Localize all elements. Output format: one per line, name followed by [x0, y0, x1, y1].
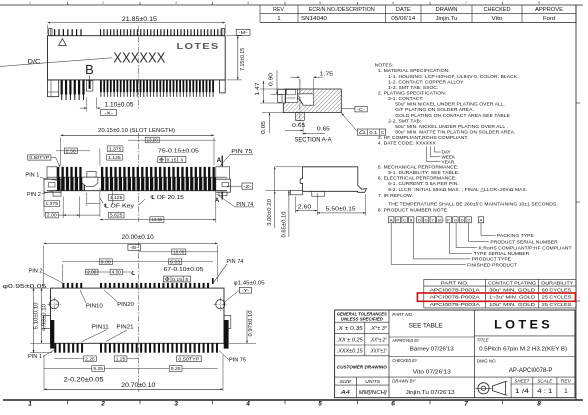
svg-text:.XXX°±1°: .XXX°±1°: [370, 349, 388, 355]
svg-text:21.85±0.15: 21.85±0.15: [122, 17, 158, 23]
svg-text:25 CYCLES.: 25 CYCLES.: [542, 295, 573, 301]
svg-text:7.15±0.15: 7.15±0.15: [240, 48, 246, 71]
svg-text:A: A: [217, 158, 222, 164]
svg-text:5-1. DURABILITY: SEE TABLE.: 5-1. DURABILITY: SEE TABLE.: [388, 170, 459, 176]
svg-text:4.00: 4.00: [112, 270, 122, 275]
svg-text:4. DATE CODE: XXXXXX: 4. DATE CODE: XXXXXX: [378, 141, 437, 147]
svg-text:APPROVE: APPROVE: [535, 7, 563, 13]
svg-text:-Z-: -Z-: [243, 184, 252, 189]
svg-text:10u" MIN. GOLD: 10u" MIN. GOLD: [489, 302, 536, 308]
svg-text:.X°± 3°: .X°± 3°: [370, 326, 388, 332]
svg-text:.XX ± 0.25: .XX ± 0.25: [337, 337, 364, 343]
svg-text:5. MECHANICAL PERFORMANCE:: 5. MECHANICAL PERFORMANCE:: [378, 164, 459, 170]
svg-text:4.93±0.10: 4.93±0.10: [41, 304, 47, 331]
svg-text:1.375: 1.375: [45, 201, 58, 206]
svg-text:2. PLATING SPECIFICATION:: 2. PLATING SPECIFICATION:: [378, 91, 446, 97]
svg-text:DWG NO.: DWG NO.: [477, 359, 497, 365]
svg-text:0.15: 0.15: [172, 277, 183, 282]
svg-text:4: 4: [245, 401, 250, 408]
svg-text:DURABILITY: DURABILITY: [541, 280, 574, 286]
svg-text:4 : 1: 4 : 1: [537, 389, 553, 395]
svg-text:10.00: 10.00: [173, 249, 185, 254]
svg-text:Ford: Ford: [543, 16, 555, 22]
svg-text:2.60: 2.60: [298, 204, 312, 210]
svg-text:0.65: 0.65: [292, 123, 305, 129]
svg-text:PART NO.: PART NO.: [441, 280, 469, 286]
svg-text:SIZE: SIZE: [339, 379, 352, 384]
svg-text:6: 6: [391, 401, 395, 408]
svg-text:℄ OF 20.15: ℄ OF 20.15: [150, 195, 184, 201]
svg-text:1.75: 1.75: [320, 71, 334, 77]
svg-text:5.10±0.10: 5.10±0.10: [33, 302, 39, 329]
svg-text:0.97±0.10: 0.97±0.10: [248, 310, 254, 336]
svg-text:PIN21: PIN21: [117, 325, 134, 331]
svg-text:Barney 07/26'13: Barney 07/26'13: [410, 347, 454, 353]
svg-text:XXXXXX: XXXXXX: [113, 51, 165, 67]
svg-text:SCALE: SCALE: [537, 378, 553, 384]
svg-text:9.03: 9.03: [170, 259, 181, 264]
svg-text:CHECKED: CHECKED: [484, 7, 511, 13]
svg-text:.XX°± 2°: .XX°± 2°: [370, 337, 388, 343]
svg-text:05/06'14: 05/06'14: [391, 16, 416, 22]
svg-text:-Y-: -Y-: [241, 288, 250, 293]
svg-text:-X-: -X-: [104, 110, 114, 115]
svg-text:0.5Pitch 67pin M.2 H3.2(KEY B): 0.5Pitch 67pin M.2 H3.2(KEY B): [479, 346, 567, 352]
svg-text:2-2. SMT TAB:: 2-2. SMT TAB:: [388, 118, 421, 124]
svg-text:DRAWN: DRAWN: [436, 7, 458, 13]
svg-text:8: 8: [537, 401, 541, 408]
svg-text:5: 5: [318, 401, 322, 408]
svg-text:1.125: 1.125: [108, 155, 121, 160]
svg-text:8: 8: [538, 1, 540, 5]
svg-text:2: 2: [101, 1, 104, 5]
svg-text:℄: ℄: [130, 271, 135, 277]
svg-text:9.00: 9.00: [101, 259, 112, 264]
svg-text:75-0.15±0.05: 75-0.15±0.05: [158, 149, 199, 155]
svg-text:1 /4: 1 /4: [515, 389, 530, 395]
svg-text:3: 3: [175, 1, 177, 5]
svg-text:NOTES:: NOTES:: [375, 63, 394, 69]
svg-text:PART NO.: PART NO.: [392, 312, 413, 318]
svg-text:50u" MIN. NICKEL UNDER PLATING: 50u" MIN. NICKEL UNDER PLATING OVER ALL …: [395, 124, 508, 130]
svg-text:7. IR REFLOW:: 7. IR REFLOW:: [378, 193, 413, 199]
svg-text:DATE: DATE: [396, 7, 411, 13]
svg-text:ECR/N NO./DESCRIPTION: ECR/N NO./DESCRIPTION: [309, 7, 375, 13]
svg-text:1: 1: [29, 1, 31, 5]
svg-text:0.65±0.10: 0.65±0.10: [281, 211, 287, 237]
svg-text:1-3. SMT TAB: SSOC.: 1-3. SMT TAB: SSOC.: [388, 85, 438, 91]
svg-text:2.00: 2.00: [87, 270, 97, 275]
svg-text:B: B: [85, 62, 94, 77]
svg-text:3.00±0.20: 3.00±0.20: [267, 199, 273, 226]
svg-text:PIN10: PIN10: [86, 304, 103, 310]
svg-text:2-1. CONTACT:: 2-1. CONTACT:: [388, 96, 423, 102]
svg-text:3. HF COMPLIANT,ROHS COMPLIAN: 3. HF COMPLIANT,ROHS COMPLIANT.: [378, 135, 469, 141]
svg-text:PIN20: PIN20: [117, 302, 134, 308]
svg-text:0.50TYP: 0.50TYP: [178, 356, 199, 361]
svg-text:0.05: 0.05: [261, 121, 267, 134]
svg-text:2-0.20±0.05: 2-0.20±0.05: [64, 377, 105, 383]
svg-text:5.625: 5.625: [110, 213, 123, 218]
svg-text:CONTACT PLATING: CONTACT PLATING: [488, 280, 536, 286]
svg-text:LOTES: LOTES: [177, 41, 220, 51]
svg-text:A: A: [480, 217, 483, 222]
svg-text:6: 6: [392, 1, 394, 5]
svg-text:2.00: 2.00: [47, 213, 58, 218]
svg-text:-M-: -M-: [239, 30, 249, 35]
svg-text:TYPE SERIAL NUMBER: TYPE SERIAL NUMBER: [474, 251, 530, 257]
svg-text:A: A: [390, 217, 393, 222]
svg-text:PIN 2: PIN 2: [27, 192, 41, 198]
svg-text:0.90: 0.90: [269, 73, 275, 86]
svg-text:2.25: 2.25: [85, 356, 95, 361]
svg-text:-B-: -B-: [130, 245, 139, 250]
svg-text:CUSTOMER DRAWING: CUSTOMER DRAWING: [337, 365, 387, 370]
svg-text:PRODUCT SERIAL NUMBER: PRODUCT SERIAL NUMBER: [490, 239, 558, 245]
svg-text:5: 5: [319, 1, 321, 5]
svg-text:0.15: 0.15: [167, 158, 178, 163]
svg-text:YEAR: YEAR: [442, 159, 455, 164]
svg-text:1.25: 1.25: [116, 356, 126, 361]
svg-text:AP-APCI0078-P: AP-APCI0078-P: [509, 367, 553, 374]
svg-text:G/F PLATING ON SOLDER AREA.: G/F PLATING ON SOLDER AREA.: [395, 107, 474, 113]
svg-text:C: C: [403, 217, 406, 222]
svg-text:80u" MIN. MATTE TIN PLATING ON: 80u" MIN. MATTE TIN PLATING ON SOLDER AR…: [395, 130, 515, 136]
svg-text:SEE TABLE: SEE TABLE: [409, 323, 444, 330]
svg-text:0.65: 0.65: [317, 127, 330, 133]
svg-text:0.50TYP: 0.50TYP: [29, 155, 49, 160]
svg-text:1.125: 1.125: [110, 195, 123, 200]
svg-text:P: P: [396, 217, 399, 222]
svg-text:6-1. CURRENT: 0.5A PER PIN.: 6-1. CURRENT: 0.5A PER PIN.: [388, 181, 459, 187]
svg-text:7: 7: [464, 401, 468, 408]
svg-text:Vito 07/26'13: Vito 07/26'13: [413, 370, 451, 376]
svg-text:UNLESS SPECIFIED: UNLESS SPECIFIED: [341, 317, 384, 322]
svg-text:Jinjin.Tu: Jinjin.Tu: [436, 16, 458, 22]
svg-text:Jinjin.Tu 07/26'13: Jinjin.Tu 07/26'13: [406, 390, 455, 396]
svg-text:.X ± 0.35: .X ± 0.35: [337, 326, 364, 332]
svg-text:PIN 1: PIN 1: [25, 172, 39, 178]
svg-text:UNITS: UNITS: [365, 379, 381, 384]
svg-text:X: X: [180, 158, 183, 163]
svg-text:1. MATERIAL SPECIFICATION:: 1. MATERIAL SPECIFICATION:: [378, 68, 450, 74]
svg-text:20.70±0.10: 20.70±0.10: [121, 382, 155, 389]
svg-text:APCI0078-P003A: APCI0078-P003A: [430, 302, 481, 308]
svg-text:DRAWN BY: DRAWN BY: [392, 378, 416, 384]
svg-text:I: I: [410, 217, 413, 222]
svg-text:APCI0078-P002A: APCI0078-P002A: [430, 295, 481, 301]
svg-text:φ1.45±0.05: φ1.45±0.05: [234, 280, 265, 286]
svg-text:6. ELECTRICAL PERFORMANCE:: 6. ELECTRICAL PERFORMANCE:: [378, 176, 457, 182]
svg-text:℄ OF Key: ℄ OF Key: [103, 203, 135, 209]
svg-text:THE TEMPERATURE SHALL BE 260±5: THE TEMPERATURE SHALL BE 260±5'C MAINTAI…: [388, 202, 558, 208]
svg-text:0.1: 0.1: [369, 130, 378, 135]
svg-text:PIN 74: PIN 74: [226, 259, 243, 265]
svg-text:B: B: [185, 277, 188, 282]
svg-text:13.50: 13.50: [147, 138, 159, 143]
svg-text:1-2. CONTACT: COPPER ALLOY.: 1-2. CONTACT: COPPER ALLOY.: [388, 79, 464, 85]
svg-text:CHECKED BY: CHECKED BY: [392, 358, 418, 364]
svg-text:20.15±0.10 (SLOT LENGTH): 20.15±0.10 (SLOT LENGTH): [98, 128, 175, 134]
svg-text:’: ’: [579, 297, 580, 303]
svg-text:PIN 75: PIN 75: [229, 358, 246, 364]
svg-text:TITLE: TITLE: [477, 338, 490, 344]
svg-text:PACKING TYPE: PACKING TYPE: [497, 233, 535, 239]
svg-text:20.00±0.10: 20.00±0.10: [122, 235, 155, 241]
svg-text:PRODUCT TYPE: PRODUCT TYPE: [472, 257, 512, 263]
svg-text:8. PRODUCT NUMBER NOTE: 8. PRODUCT NUMBER NOTE: [378, 207, 448, 213]
svg-text:9.25: 9.25: [93, 366, 103, 371]
svg-text:1: 1: [277, 16, 280, 22]
svg-text:PIN 1: PIN 1: [28, 354, 42, 360]
svg-text:APPROVED BY: APPROVED BY: [392, 338, 420, 344]
svg-text:REV: REV: [561, 378, 572, 384]
svg-text:SHEET: SHEET: [514, 378, 530, 384]
svg-text:MM[INCH]: MM[INCH]: [359, 390, 388, 396]
svg-text:K:RoHS COMPLIANT/P:HF COMPLIAN: K:RoHS COMPLIANT/P:HF COMPLIANT: [479, 245, 572, 251]
svg-text:6-2. LLCR: INITIAL 55mΩ MAX. ;: 6-2. LLCR: INITIAL 55mΩ MAX. ; FINAL △LL…: [388, 187, 527, 193]
svg-text:LOTES: LOTES: [494, 320, 553, 332]
svg-text:9.25: 9.25: [171, 366, 181, 371]
svg-text:PIN 2: PIN 2: [29, 268, 43, 274]
svg-text:2.50: 2.50: [66, 148, 77, 153]
svg-text:1.47: 1.47: [255, 82, 261, 95]
svg-text:FINISHED PRODUCT: FINISHED PRODUCT: [467, 262, 517, 268]
svg-text:5.50±0.15: 5.50±0.15: [326, 207, 356, 213]
svg-text:REV.: REV.: [273, 7, 285, 13]
svg-text:67-0.10±0.05: 67-0.10±0.05: [164, 267, 204, 273]
svg-text:SN14040: SN14040: [301, 16, 327, 22]
svg-text:GOLD PLATING ON CONTACT A: GOLD PLATING ON CONTACT AREA:SEE TABLE: [395, 113, 510, 119]
svg-text:Vito: Vito: [492, 16, 503, 22]
svg-text:.XXX±0.15: .XXX±0.15: [337, 349, 364, 355]
svg-text:3: 3: [174, 401, 178, 408]
svg-text:1~3u" MIN. GOLD: 1~3u" MIN. GOLD: [489, 295, 536, 301]
svg-text:P: P: [447, 217, 450, 222]
svg-text:1: 1: [28, 401, 32, 408]
svg-text:A4: A4: [340, 390, 350, 396]
svg-text:2: 2: [100, 401, 105, 408]
svg-text:SECTION A-A: SECTION A-A: [295, 138, 332, 144]
svg-text:50u" MIN.NICKEL UNDER PLATING: 50u" MIN.NICKEL UNDER PLATING OVER ALL.: [395, 102, 505, 108]
svg-text:1-1. HOUSING: LCP+40%GF, UL94V: 1-1. HOUSING: LCP+40%GF, UL94V-0, COLOR:…: [388, 74, 518, 80]
svg-text:1.375: 1.375: [109, 146, 122, 151]
svg-text:-C-: -C-: [357, 107, 366, 112]
svg-text:1.10±0.05: 1.10±0.05: [105, 102, 135, 108]
svg-text:4: 4: [247, 1, 249, 5]
svg-text:25 CYCLES.: 25 CYCLES.: [542, 302, 573, 308]
svg-text:φ0.95±0.05: φ0.95±0.05: [2, 284, 46, 290]
